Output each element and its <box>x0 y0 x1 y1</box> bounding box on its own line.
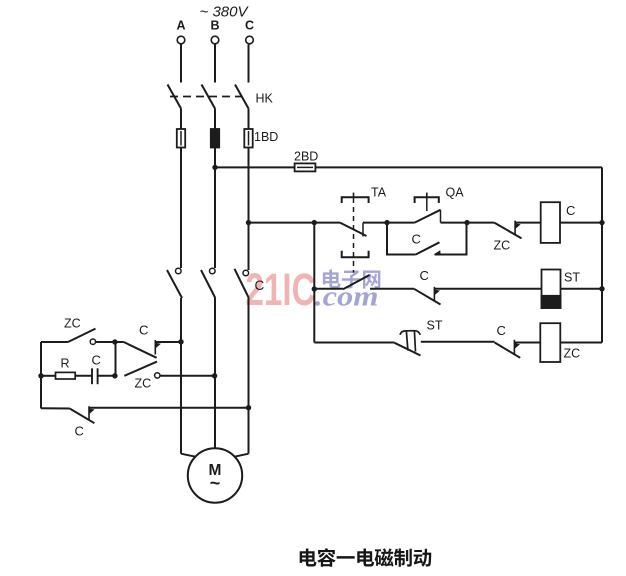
svg-text:C: C <box>245 19 254 33</box>
fuse 1BD pole B <box>211 129 219 148</box>
coil C <box>541 202 560 243</box>
wire coil ZC to right rail <box>560 342 602 344</box>
svg-text:ZC: ZC <box>564 347 581 361</box>
contact ZC NO brake mid <box>124 362 157 376</box>
svg-text:C: C <box>139 323 148 338</box>
junction A brake tap <box>178 339 183 344</box>
svg-text:TA: TA <box>371 186 387 200</box>
wire QA to node2 <box>441 222 468 224</box>
wire brake row-mid right <box>160 375 215 377</box>
wire phase A lower <box>180 298 182 454</box>
wire brake row-bottom left <box>41 407 70 409</box>
wire coil ST to right rail <box>561 288 603 290</box>
wire brake row-bottom right <box>89 407 249 409</box>
svg-text:1BD: 1BD <box>254 130 278 144</box>
wire row1 from C line <box>249 222 341 224</box>
svg-text:C: C <box>255 278 265 293</box>
wire brake left rail <box>40 342 42 409</box>
junction C brake tap <box>246 405 251 410</box>
contact QA NO <box>415 210 441 223</box>
svg-text:QA: QA <box>446 186 465 200</box>
junction right rail row1 <box>599 220 604 225</box>
wire A switch to fuse <box>180 109 182 131</box>
junction right rail row2 <box>599 286 604 291</box>
junction brake left rail <box>38 373 43 378</box>
contact C main pole C <box>243 270 249 276</box>
wire B terminal to switch <box>214 44 216 83</box>
switch HK pole A blade <box>168 85 182 109</box>
motor M <box>188 448 242 502</box>
fuse 1BD pole C <box>244 129 252 148</box>
button TA actuator <box>342 197 369 203</box>
svg-text:C: C <box>412 232 421 247</box>
switch HK pole C blade <box>235 85 249 109</box>
svg-text:A: A <box>176 19 185 33</box>
svg-text:R: R <box>61 357 70 371</box>
wire B switch to fuse <box>214 109 216 131</box>
junction left rail top <box>312 220 317 225</box>
wire brake row-top right <box>155 341 181 343</box>
terminal C <box>246 36 254 44</box>
contact C NC row3 <box>495 343 521 358</box>
fuse 2BD <box>295 163 316 171</box>
contact ZC NO brake top <box>68 329 96 342</box>
svg-text:ST: ST <box>564 271 580 285</box>
wire C switch to fuse <box>248 109 250 131</box>
wire coil C to right rail <box>560 222 602 224</box>
wire brake link vertical <box>115 342 117 376</box>
coil ZC <box>540 323 560 362</box>
wire right rail <box>601 167 603 342</box>
wire row2 left <box>314 288 343 290</box>
wire TA to node1 <box>363 222 387 224</box>
contact C self-hold NO branch <box>387 223 416 255</box>
contact ZC NC <box>494 223 521 239</box>
wire control feed right <box>315 166 602 168</box>
wire control feed left <box>215 166 295 168</box>
junction B brake tap <box>212 373 217 378</box>
svg-text:C: C <box>75 424 84 439</box>
wire A fuse to contact <box>180 148 182 269</box>
wire brake row-mid left <box>41 375 56 377</box>
svg-text:ZC: ZC <box>64 317 81 331</box>
wire A terminal to switch <box>180 44 182 83</box>
fuse 1BD pole A <box>177 129 185 148</box>
junction left rail row2 <box>312 286 317 291</box>
wire node2 to ZC contact <box>467 222 494 224</box>
svg-text:HK: HK <box>256 92 274 106</box>
svg-text:C: C <box>497 323 506 338</box>
junction B control feed <box>212 165 217 170</box>
wire node1 to QA <box>387 222 415 224</box>
svg-text:C: C <box>420 268 429 283</box>
svg-text:ZC: ZC <box>494 239 511 253</box>
switch HK pole B blade <box>202 85 216 109</box>
contact C main pole A <box>176 268 182 274</box>
junction C line row1 <box>246 220 251 225</box>
coil ST time relay <box>542 270 561 309</box>
terminal B <box>211 36 219 44</box>
contact TA NO row2 <box>343 275 370 289</box>
contact TA NC <box>340 223 367 236</box>
wire R to capacitor <box>75 375 92 377</box>
contact C NC row2 <box>414 289 441 305</box>
svg-text:~ 380V: ~ 380V <box>200 4 250 21</box>
wire row3 left <box>314 342 394 344</box>
junction brake top node <box>112 339 117 344</box>
svg-text:C: C <box>566 203 575 218</box>
wire row2 to coil ST <box>434 288 541 290</box>
contact ST NC time-delay <box>395 343 421 356</box>
svg-text:ST: ST <box>427 319 443 333</box>
wire brake row-top left <box>41 341 68 343</box>
terminal A <box>177 36 185 44</box>
wire row2 mid <box>370 288 414 290</box>
svg-text:ZC: ZC <box>135 377 152 391</box>
wire C contact to coil ZC <box>514 342 540 344</box>
contact C NC brake top <box>124 342 157 358</box>
contact C main pole B <box>210 268 216 274</box>
wire ST contact to C contact <box>421 341 495 343</box>
wire phase C lower <box>248 298 250 454</box>
wire C terminal to switch <box>248 45 250 83</box>
wire ZC contact to coil C <box>515 222 541 224</box>
button QA actuator <box>415 197 439 203</box>
wire capacitor to node <box>98 375 115 377</box>
wire C fuse to contact <box>248 148 250 271</box>
wire control left rail <box>313 223 315 343</box>
svg-text:2BD: 2BD <box>294 150 318 164</box>
junction node1 <box>384 220 389 225</box>
svg-text:B: B <box>210 19 219 33</box>
svg-text:C: C <box>92 353 101 368</box>
svg-text:~: ~ <box>210 473 221 493</box>
junction brake mid node <box>112 373 117 378</box>
contact C NO brake bottom <box>70 409 95 424</box>
junction node2 <box>464 220 469 225</box>
wire B fuse to contact <box>214 148 216 269</box>
switch HK linkage <box>170 96 242 98</box>
wire phase B lower <box>214 298 216 449</box>
wire brake row-top mid <box>96 341 124 343</box>
caption 电容一电磁制动 <box>300 549 317 567</box>
capacitor C <box>91 368 93 384</box>
resistor R <box>56 372 76 379</box>
